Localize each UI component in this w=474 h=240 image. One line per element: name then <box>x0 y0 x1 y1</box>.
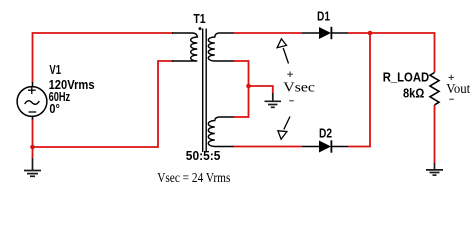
svg-text:T1: T1 <box>193 11 205 26</box>
svg-text:50:5:5: 50:5:5 <box>186 148 221 163</box>
svg-text:0°: 0° <box>49 101 60 116</box>
svg-text:Vsec = 24 Vrms: Vsec = 24 Vrms <box>157 170 230 185</box>
svg-text:Vout: Vout <box>446 82 470 97</box>
svg-text:Vsec: Vsec <box>283 80 315 95</box>
svg-text:V1: V1 <box>49 62 61 77</box>
svg-text:R_LOAD: R_LOAD <box>383 70 430 85</box>
svg-text:D2: D2 <box>319 126 332 141</box>
svg-text:8kΩ: 8kΩ <box>403 85 424 100</box>
svg-text:D1: D1 <box>317 9 330 24</box>
